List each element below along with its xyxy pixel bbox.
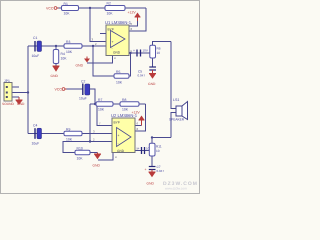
capacitor C6 output U2 polarized [138,147,152,155]
svg-text:VCC: VCC [46,7,54,11]
resistor R5 feedback [114,70,129,85]
svg-text:10uF: 10uF [79,97,87,101]
resistor R6 zobel top [150,45,161,58]
svg-text:+: + [138,147,140,151]
speaker LS1 [169,98,188,122]
svg-text:R9: R9 [66,128,70,132]
svg-text:+: + [112,40,114,44]
left vertical bus wire [27,46,29,134]
wire zobel top lower lead [152,58,154,67]
op-amp U2 LM386N-1 [93,113,139,159]
svg-text:10uF: 10uF [32,54,40,58]
wire pin6 U1 to +12V [129,21,138,26]
wire output U1 [129,52,150,54]
wire input bottom channel [28,133,112,135]
wire pin4 U2 gnd path [98,153,113,161]
wire bypass cap to rail U2 [90,89,95,104]
node junction rail [89,7,91,9]
wire rail corner to pin8 U2 [135,104,146,131]
capacitor C5 zobel top [138,67,157,78]
node junction bypass/rail U2 [94,103,96,105]
svg-text:0.047: 0.047 [138,74,146,78]
resistor R4 shunt vertical [53,46,67,66]
wire rail corner to pin8 U1 [129,8,146,31]
svg-text:10K: 10K [98,108,105,112]
wire bypass port to cap C2 [67,88,83,90]
svg-text:R6: R6 [157,47,161,51]
connector JP1 [4,79,12,101]
svg-text:SPEAKER: SPEAKER [169,118,185,122]
power port +12V U1 [128,11,141,22]
capacitor C3 output U1 polarized [133,49,148,57]
resistor R9 series input U2 [64,128,82,142]
node junction rail drop / pin2 wire [89,140,91,142]
svg-text:R11: R11 [156,145,162,149]
wire zobel bottom to speaker line [152,138,171,144]
svg-text:R7: R7 [98,98,102,102]
wire top rail [59,7,147,9]
svg-text:10V: 10V [143,49,148,53]
node junction feedback [92,45,94,47]
svg-text:C2: C2 [81,80,85,84]
svg-text:10K: 10K [77,157,84,161]
svg-text:GND: GND [17,102,25,106]
svg-text:R4: R4 [61,52,65,56]
wire pin4 U1 gnd path [87,56,113,64]
wire connector pin 3 stub [12,96,19,98]
capacitor C4 input bottom [32,123,42,145]
svg-text:C1: C1 [33,36,37,40]
wire rail U2 [90,103,146,105]
ground connector [16,97,23,105]
wire feedback loop U1 [93,46,114,76]
wire speaker vertical lower [171,113,176,138]
svg-text:GND: GND [51,74,59,78]
wire connector to bus [19,92,28,94]
svg-text:GND: GND [148,82,156,86]
svg-text:10: 10 [157,51,161,55]
svg-text:VCC: VCC [55,88,63,92]
wire zobel top to speaker line [153,42,172,46]
resistor R8 rail U2 [120,98,139,112]
resistor R2 rail [105,2,125,16]
svg-text:GND: GND [93,164,101,168]
wire connector pin 2 stub [12,92,19,94]
svg-text:10K: 10K [107,12,114,16]
node junction C1/shunt [55,45,57,47]
svg-text:R1: R1 [64,2,68,6]
power port +12V U2 [132,111,145,126]
svg-text:10K: 10K [66,138,73,142]
op-amp U1 LM386N-1 [92,20,133,60]
wire rail left drop to pin2 U2 [89,104,91,142]
wire input top channel [28,45,106,47]
wire output U2 [135,150,150,152]
wire pin3 drop from rail [90,9,106,42]
svg-text:10K: 10K [61,57,68,61]
svg-text:+: + [145,168,147,172]
resistor R1 rail [62,2,79,16]
capacitor C1 input top [32,36,42,58]
wire pin2 U2 -IN loop [63,142,112,153]
svg-text:R5: R5 [116,70,120,74]
svg-text:10K: 10K [64,12,71,16]
wire connector pin 1 stub [12,86,19,88]
svg-text:-: - [118,142,119,146]
resistor R7 rail U2 [96,98,113,112]
power port VCC bypass [55,88,67,92]
ground pin2/pin4 U2 [93,153,102,168]
svg-text:BYP: BYP [114,121,120,125]
svg-text:GND: GND [76,64,84,68]
svg-text:+12V: +12V [128,11,137,15]
resistor R3 series input [64,40,82,54]
ground zobel top [148,70,156,86]
capacitor C2 bypass [79,80,90,101]
ground below shunt resistor [51,66,60,78]
ground zobel bottom [147,170,156,186]
border frame [1,1,200,194]
svg-text:R10: R10 [77,147,83,151]
node junction zobel bottom/speaker line [151,136,153,138]
svg-text:R8: R8 [122,98,126,102]
power port VCC top-left [46,7,59,11]
svg-text:GND: GND [147,182,155,186]
resistor R10 pin2 to gnd [75,147,90,161]
svg-text:U1 LM386N-1: U1 LM386N-1 [105,20,132,25]
ground pin4 U1 (red power ground) [76,57,91,68]
svg-text:R3: R3 [66,40,70,44]
capacitor C7 zobel bottom [145,165,165,173]
svg-text:10uF: 10uF [32,142,40,146]
svg-text:U2 LM386N-1: U2 LM386N-1 [111,113,138,118]
svg-text:10K: 10K [122,108,129,112]
svg-text:www.dz3w.com: www.dz3w.com [165,187,187,191]
wire zobel bottom lower lead [151,156,153,167]
svg-text:C4: C4 [33,123,37,127]
node junction feedback/output U1 [129,52,131,54]
svg-text:GND: GND [117,149,125,153]
svg-text:GND: GND [113,51,121,55]
svg-text:-: - [112,46,113,50]
resistor R11 zobel bottom [149,143,162,156]
wire pin7 U2 from rail [97,104,112,126]
svg-text:R2: R2 [107,2,111,6]
svg-text:10K: 10K [66,50,73,54]
svg-text:10K: 10K [116,81,123,85]
svg-text:LS1: LS1 [173,98,179,102]
node junction connector/bus [27,91,29,93]
svg-text:+: + [133,49,135,53]
wire pin6 U2 to +12V [135,125,142,127]
svg-text:+: + [118,134,120,138]
svg-text:SOUND: SOUND [2,102,15,106]
wire feedback right leg to output [129,53,131,76]
svg-text:10: 10 [156,149,160,153]
wire speaker vertical upper [171,42,176,109]
svg-text:0.047: 0.047 [157,169,165,173]
